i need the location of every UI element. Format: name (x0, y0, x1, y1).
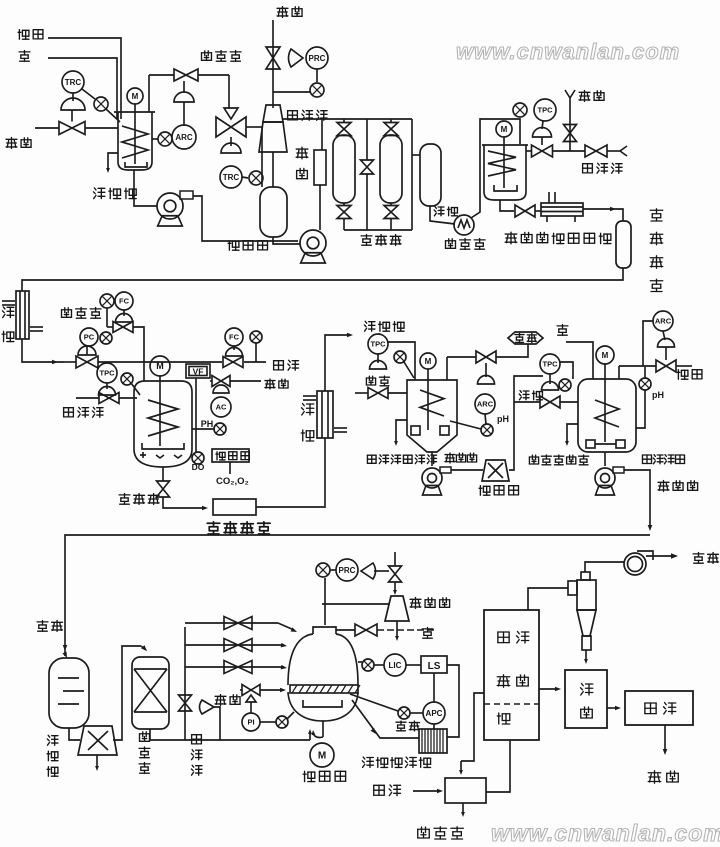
svg-text:FC: FC (119, 297, 130, 306)
label additive (shijiayan) (62, 308, 72, 318)
wire pump1 discharge run (193, 196, 298, 241)
pump P1 under slurry tank (157, 193, 183, 219)
wire steam right vertical (569, 98, 571, 151)
label fermentation broth (fajiaoye) (364, 321, 375, 331)
label vacuum pump (zhenkongbeng) (410, 598, 421, 609)
svg-text:pH: pH (497, 414, 509, 424)
motor M second tank (596, 346, 614, 364)
label steam right (zhengqi) (579, 91, 590, 102)
wire three-way valve outlet to ejector (246, 126, 262, 128)
wire fluid bed top to cyclone (528, 588, 568, 610)
wire TPC2 stem (549, 374, 551, 384)
valve sulfuric acid (476, 351, 496, 363)
box fluidized bed dryer (liuhuachuangganzao) (484, 610, 539, 740)
instrument crossed circle level (362, 659, 374, 671)
svg-text:ARC: ARC (175, 133, 193, 142)
instrument PRC (306, 47, 328, 69)
wire fermentor sparger line (195, 378, 197, 452)
agitator shaft second tank (604, 379, 606, 442)
wire separator riser to second tank (509, 376, 543, 470)
actuator dome brine valve (370, 361, 387, 370)
wire crystallizer level tap (358, 661, 362, 663)
wire horn to vacuum line (374, 570, 389, 572)
stub lines middle cooler (303, 395, 316, 397)
label laminar tanks (cengliuguan) (361, 235, 372, 246)
instrument crossed circle TPC fermentor (121, 373, 133, 385)
wire liquid nitrogen line (210, 380, 212, 382)
agitator bracket fermentor (142, 443, 184, 449)
coil isoelectric tank (420, 390, 444, 416)
coil in slurry tank (122, 126, 148, 158)
wire cooling water line (526, 150, 532, 152)
svg-text:pH: pH (652, 390, 664, 400)
instrument LIC (384, 654, 406, 676)
valve cooling water 1 (532, 145, 553, 157)
wire APC to crossed (410, 712, 423, 714)
actuator dome soda valve (174, 92, 194, 102)
label caustic (jianye) (677, 370, 688, 380)
wire drain isoelectric (396, 420, 407, 443)
wire FC stem (123, 310, 125, 316)
actuator horn PRC vacuum (361, 563, 376, 579)
agitator shaft slurry tank (134, 104, 136, 164)
wire soda down to three-way valve (228, 75, 230, 109)
instrument PRC vacuum (336, 559, 358, 581)
wire steam inlet line (35, 127, 59, 129)
label sodium carbonate (tansuanna) (202, 51, 212, 61)
vessel saccharification tank (tanghuaguan) (482, 145, 528, 200)
wire saccharification outlet (500, 200, 514, 211)
bowl crystallizer (288, 692, 358, 721)
wire LS control loop right (447, 665, 459, 737)
instrument crossed circle pH second (639, 378, 651, 390)
wire crystallizer bottom outlet (322, 721, 324, 737)
valve broth feed (76, 356, 98, 368)
vessel activated carbon column (huoxingtan) (49, 658, 89, 728)
wire TPC stem (542, 121, 543, 129)
actuator dome cooling water valve (533, 128, 552, 138)
wire ARC to pH (485, 414, 486, 424)
vacuum pump (zhenkongbeng) (385, 596, 409, 621)
funnel separator under carbon (78, 726, 117, 755)
motor M saccharification (496, 121, 512, 137)
valve cold water (540, 396, 560, 408)
wire pump4 to refining (624, 470, 650, 528)
wire ARC caustic side lead (643, 321, 653, 366)
label starch (dianfen) (18, 30, 29, 40)
instrument crossed circle DO (192, 452, 204, 464)
wire sieve to packaging arrow (607, 707, 618, 709)
hatched band crystallizer (290, 685, 358, 693)
label crystallizer (jiejingguan) (303, 771, 315, 781)
label slurry tank (tiaojiangguan) (93, 188, 104, 199)
valve soda (sodium carbonate) (174, 69, 198, 81)
vessel crystallizer (jiejingguan) (313, 627, 336, 634)
wire pump3 to separator (451, 469, 483, 471)
wire steam top down to ejector (272, 20, 274, 108)
svg-text:PRC: PRC (339, 566, 356, 575)
wire vacuum pump discharge (396, 621, 398, 638)
wire M2 shaft (604, 364, 606, 379)
wire fork end cooling water (620, 146, 627, 151)
wire top header to laminar tanks (282, 118, 412, 120)
wire crossed air down (255, 343, 257, 362)
vessel centrifugal filter column (616, 221, 631, 268)
actuator dome air valve (226, 348, 243, 357)
label finished product (chengpin) (648, 771, 661, 784)
wire down to buffer tank (261, 127, 263, 187)
svg-text:TPC: TPC (100, 369, 116, 378)
label packaging (fenzhuang) (645, 703, 656, 714)
wire filter to pump2 (319, 185, 321, 230)
label divide (fen) (581, 707, 593, 718)
wire computer lead (229, 462, 231, 474)
cooler (lengqueqi) circle (454, 215, 474, 235)
instrument crossed circle saccharification (513, 103, 527, 117)
separator (fenliji) (482, 460, 509, 481)
valve cooling water fermentor (99, 393, 119, 404)
label fermentor (fajiaoguan) (119, 494, 130, 505)
vessel storage tank (zhuguan) (420, 144, 441, 206)
instrument crossed circle concentration (398, 707, 410, 719)
svg-text:APC: APC (426, 709, 443, 718)
wire filter box to middle cooler (256, 438, 325, 507)
cyclone cone (577, 610, 596, 636)
instrument crossed circle pH fermentor (214, 423, 226, 435)
svg-text:LS: LS (428, 661, 441, 672)
label sieve (shai) (581, 684, 593, 696)
svg-text:AC: AC (216, 403, 227, 412)
wire PI to crossed (260, 721, 276, 723)
label to refining (quqingzhi) (658, 481, 669, 492)
square baffle right second tank (616, 440, 625, 448)
valve steam top (266, 47, 280, 69)
cyclone bottom tube (582, 636, 591, 650)
svg-text:LIC: LIC (389, 661, 402, 670)
hook end under crystallizer (309, 732, 311, 740)
cyclone inlet box (568, 581, 577, 595)
actuator steam valve crystallizer (246, 695, 256, 702)
label plate frame filter (362, 757, 373, 767)
valve cooling water 2 (585, 145, 607, 157)
valve charge line2 (224, 639, 252, 652)
valve steam crystallizer (242, 685, 260, 696)
instrument crossed circle TRC loop (94, 97, 108, 111)
cross pattern ion column (134, 668, 167, 670)
actuator dome three-way valve (221, 143, 241, 153)
wire caustic line (619, 365, 656, 367)
instrument ARC (172, 125, 196, 149)
label cooling vertical (lengque) (2, 307, 13, 318)
wire long recycle line row1 to row2 cooler (22, 268, 623, 291)
wire ARC caustic stem (663, 331, 665, 340)
wire ejector to buffer tank (272, 152, 274, 187)
label brine (yanshui) (366, 376, 375, 385)
instrument crossed circle PC (100, 332, 112, 344)
valve three-way (216, 117, 246, 137)
svg-text:FC: FC (229, 333, 240, 342)
actuator dome under nitrogen valve (213, 385, 229, 393)
wire APC to filter (433, 724, 435, 729)
agitator shaft isoelectric (427, 369, 429, 430)
svg-text:M: M (501, 125, 508, 134)
wire pH loop second tank (636, 390, 645, 428)
vessel laminar tank1 (cengliuguan) (333, 135, 355, 203)
label buffer tank (huanchongguan) (228, 241, 239, 251)
instrument AC (211, 397, 231, 417)
vessel ion exchange column (liganzhu) (132, 657, 169, 729)
wire tank to ARC sensor (152, 138, 158, 140)
coil saccharification tank (488, 151, 516, 176)
label air bottom (kongqi) (374, 785, 385, 795)
svg-text:PC: PC (84, 333, 95, 342)
wire drain second tank (567, 424, 578, 443)
label heater (huanreqi) (418, 827, 430, 838)
wire LS down to APC (433, 673, 435, 702)
label isoelectric neutralization tank (367, 455, 376, 463)
wire charge line1 to crystallizer (185, 622, 278, 624)
actuator horn PRC (289, 49, 304, 67)
wire dashed vacuum line (377, 629, 436, 631)
label ejector (penpsheqi) (288, 111, 298, 120)
wire fluid bed to sieve arrow (539, 688, 558, 690)
motor M isoelectric (420, 353, 436, 369)
actuator dome ARC isoelectric (478, 376, 495, 385)
svg-text:www.cnwanlan.com: www.cnwanlan.com (491, 820, 720, 846)
ejector (penpsheqi) (263, 105, 283, 122)
wire sterilizer to centrifugal filter vessel (583, 208, 618, 210)
wire TPC stem (106, 383, 108, 389)
label steam sterilizer (zhengqimiemei) (552, 233, 564, 243)
svg-text:PH: PH (201, 419, 214, 429)
wire funnel to ion column riser (113, 646, 141, 740)
box sieving (shaifen) (565, 670, 607, 728)
wire ion column outlet (150, 729, 310, 740)
valve vacuum (389, 566, 402, 582)
actuator dome on steam valve (61, 98, 85, 110)
heat exchanger middle cooler (lengque) (317, 391, 333, 438)
wire second tank outlet (604, 452, 606, 466)
wire additive line into fermentor (106, 308, 108, 327)
actuator dome broth valve (78, 346, 96, 355)
square baffle right isoelectric (440, 426, 449, 435)
valve saccharification outlet (515, 205, 535, 217)
instrument crossed circle below PRC (310, 83, 324, 97)
wire sulfuric to valve line (496, 344, 528, 357)
instrument crossed circle three-way loop (249, 171, 263, 185)
wire steam line crystallizer (240, 689, 242, 691)
box heater (huanreqi) (445, 778, 486, 803)
actuator dome cooling water valve fermentor (99, 387, 116, 396)
vessel laminar tank2 (cengliuguan) (380, 135, 402, 203)
heat exchanger cooler left (lengque) (16, 291, 29, 339)
wire horn connect (214, 707, 220, 740)
actuator dome FC valve (116, 314, 133, 323)
instrument TPC second neutralization (540, 354, 560, 374)
label water vacuum (shui) (422, 628, 433, 639)
box VF sensor (186, 364, 210, 378)
valve laminar tank2 top (390, 119, 392, 123)
wire LIC to LS (406, 664, 421, 666)
wire cyclone discharge arrow (585, 650, 587, 661)
wire header down to filter (321, 119, 323, 150)
svg-text:M: M (425, 357, 432, 366)
instrument crossed circle TPC neutralization (394, 351, 406, 363)
label filter (guolv) vertical (296, 147, 308, 159)
label water (shui) (19, 51, 30, 62)
wire crystallizer neck to vacuum valve (336, 629, 355, 631)
valve decolorized riser (179, 695, 192, 711)
agitator bracket saccharification (494, 185, 517, 191)
dashes inside carbon column (58, 677, 79, 679)
wire laminar bottom header (344, 229, 412, 231)
wire middle cooler up to broth line (325, 335, 350, 391)
wire water into second tank (566, 342, 593, 379)
vessel buffer tank (huanchongguan) (260, 187, 287, 237)
wire starch line (48, 38, 121, 119)
label saccharification tank (tanghuaguan) (505, 232, 517, 244)
valve crystallizer vacuum (355, 624, 377, 636)
wire TRC to crossed circle diagonal (82, 89, 95, 99)
valve laminar tank2 bottom (390, 203, 392, 206)
wire PRC stem (316, 69, 318, 82)
label exhaust gas (weiqi) (693, 553, 704, 564)
instrument crossed circle FC loop (100, 294, 114, 308)
label feed liquid (liaoye) (37, 621, 48, 632)
wire TRC stem (72, 93, 74, 101)
label steam left (zhengqi) (6, 138, 17, 149)
svg-text:www.cnwanlan.com: www.cnwanlan.com (456, 39, 680, 64)
stub lines cooler left (2, 300, 15, 302)
box packaging (fenzhuang) (625, 691, 693, 725)
wire storage tank to cooler (430, 206, 455, 224)
label activated carbon vertical (huoxingtan) (47, 735, 58, 745)
wire three-way valve stem (230, 137, 232, 146)
wire air into heater (413, 790, 440, 792)
instrument crossed circle air FC (250, 331, 262, 343)
square baffle left second tank (586, 440, 595, 448)
horn ejector decolorized (200, 700, 215, 714)
svg-text:M: M (318, 751, 326, 762)
label dry (zao) (497, 713, 510, 724)
bracket inside crystallizer (303, 700, 342, 707)
wire funnel outlet arrow (96, 755, 98, 768)
hexagon sulfuric acid (liusuan) (508, 332, 543, 344)
wire pH probe diagonal isoelectric (450, 421, 481, 429)
wire TPC stem (377, 354, 379, 363)
wire valve to vacuum pump (394, 582, 396, 592)
vessel slurry tank (tiaojiangguan) (114, 112, 155, 170)
wire charge line2 (185, 644, 284, 646)
label air (kongqi) (274, 361, 284, 370)
wire drain slurry tank (108, 153, 118, 170)
wire ARC stem chain (485, 363, 487, 377)
valve charge line1 (224, 617, 252, 630)
motor M slurry tank (127, 88, 143, 104)
agitator shaft saccharification (503, 137, 505, 188)
square baffle left isoelectric (411, 426, 420, 435)
wire PRC pressure tap (324, 578, 326, 625)
wire crossed to PRC (330, 569, 336, 571)
wire main broth feed line (64, 361, 76, 363)
dashed line fluid bed (484, 703, 539, 705)
wire to sterilizer (535, 210, 541, 212)
label cold water (lengshui) (519, 391, 529, 400)
label fluidized (liuhua) (498, 632, 509, 643)
svg-text:TRC: TRC (65, 78, 82, 87)
agitator bracket slurry tank (125, 162, 147, 167)
vessel fermentor (fajiaoguan) (134, 381, 192, 467)
label separator (fenliji) (479, 486, 490, 496)
svg-text:TPC: TPC (371, 340, 387, 349)
wire isoelectric outlet to pump (431, 452, 433, 466)
label sodium glutamate (guansuanna) (643, 455, 652, 464)
label cooling water fermentor (lengqueshui) (64, 408, 74, 417)
svg-text:CO₂,O₂: CO₂,O₂ (216, 476, 249, 487)
label ion column vertical (liganzhu) (140, 732, 150, 742)
svg-text:TPC: TPC (538, 106, 554, 115)
wire crossed circle to tank diagonal (106, 109, 120, 122)
box LS (421, 656, 447, 673)
svg-text:ARC: ARC (655, 317, 672, 326)
pump P2 under buffer tank (300, 230, 326, 256)
instrument TRC (62, 71, 84, 93)
instrument crossed circle ARC loop (158, 132, 172, 146)
wire filter to heater drop (461, 693, 484, 761)
label centrifugal filtration bold (lixinguolv) (207, 522, 220, 534)
svg-text:TRC: TRC (223, 173, 240, 182)
svg-text:TPC: TPC (543, 360, 559, 369)
blower exhaust (624, 553, 646, 575)
wire crossed to fermentor diagonal (131, 383, 140, 395)
valve caustic (656, 360, 676, 372)
wire cold water line (514, 401, 540, 403)
svg-text:M: M (132, 92, 139, 101)
wire FC air stem (233, 346, 235, 350)
wire packaging down to product (664, 725, 666, 752)
wire concentration probe diagonal (350, 694, 398, 711)
wire TRC to crossed circle (242, 177, 248, 178)
label steam crystallizer (zhengqi) (215, 695, 226, 706)
valve laminar middle (366, 119, 368, 160)
wire slurry tank to pump1 (134, 170, 157, 206)
label liquid nitrogen (yedan) (265, 379, 275, 389)
svg-text:M: M (602, 351, 609, 360)
arrow diagonal into crystallizer (352, 700, 419, 738)
filter box (guolv) (314, 150, 326, 185)
actuator dome cold water valve (542, 382, 559, 390)
valve charge line3 (224, 661, 252, 674)
svg-text:M: M (156, 361, 164, 371)
wire charge line3 (185, 666, 284, 668)
wire cooler left outlet down (22, 339, 64, 362)
label storage tank (zhuguan) (434, 207, 444, 216)
wire steam tee to crossed circle (273, 91, 310, 93)
valve liquid nitrogen (212, 376, 230, 387)
svg-text:ARC: ARC (477, 400, 494, 409)
wire cooler to saccharification tank (471, 119, 520, 218)
valve laminar tank1 bottom (343, 203, 345, 206)
hook crystallizer outlet (313, 733, 323, 738)
label steam top (zhengqi) (277, 7, 288, 18)
wire crossed to tank diagonal (404, 362, 414, 378)
wire fermentor outlet to centrifugal filter box (163, 497, 205, 508)
wire crossed to crystallizer (287, 712, 294, 719)
valve steam right (564, 125, 577, 142)
wire fermentor outlet down (162, 467, 164, 481)
instrument crossed circle PRC vacuum (316, 563, 330, 577)
svg-text:VF: VF (193, 367, 204, 377)
